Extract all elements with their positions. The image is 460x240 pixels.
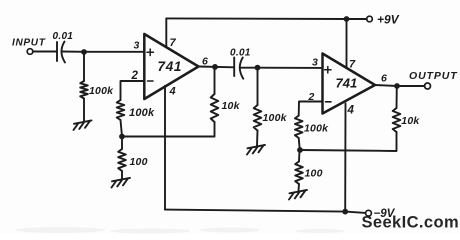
svg-text:SeekIC.com: SeekIC.com xyxy=(362,214,460,232)
op-amp U2 741 xyxy=(323,54,376,114)
wire R4 up to node B xyxy=(214,67,216,94)
ground G1 xyxy=(74,120,92,130)
svg-text:OUTPUT: OUTPUT xyxy=(409,70,458,82)
svg-text:10k: 10k xyxy=(401,115,420,127)
svg-text:10k: 10k xyxy=(222,100,241,112)
op-amp U1 741 xyxy=(144,34,198,99)
resistor R8 10k xyxy=(393,108,401,132)
wire U2 pin2 left and down xyxy=(299,102,323,116)
U2 pin4 wire to -9V rail xyxy=(344,104,346,212)
wire R8 up to node E xyxy=(396,86,398,108)
svg-text:+9V: +9V xyxy=(377,12,400,26)
wire U2 output pin6 to OUTPUT xyxy=(375,85,425,86)
svg-text:0.01: 0.01 xyxy=(230,48,251,59)
svg-text:741: 741 xyxy=(158,59,183,74)
svg-text:2: 2 xyxy=(131,70,139,82)
+9V rail junction dot xyxy=(344,16,350,22)
node B junction dot xyxy=(212,64,218,70)
svg-text:100: 100 xyxy=(305,168,323,180)
wire C2 to node D to U2 pin3 xyxy=(240,67,323,69)
node F junction dot xyxy=(297,147,303,153)
output terminal xyxy=(425,83,431,89)
-9V rail junction dot xyxy=(342,209,348,215)
wire node C down xyxy=(121,137,123,150)
node A junction dot xyxy=(81,49,87,55)
svg-text:100k: 100k xyxy=(129,107,155,119)
wire node F down xyxy=(298,150,301,161)
resistor R7 100 xyxy=(295,161,303,184)
wire R6 to node F xyxy=(299,138,300,150)
resistor R3 100 xyxy=(118,149,126,171)
U1 pin4 wire to -9V rail xyxy=(164,86,166,210)
resistor R6 100k xyxy=(295,116,303,138)
svg-text:6: 6 xyxy=(381,73,387,85)
-9V bottom rail wire xyxy=(165,210,366,213)
svg-text:4: 4 xyxy=(169,85,176,97)
feedback wire node C to R4 xyxy=(122,122,215,137)
wire R2 to node C xyxy=(121,120,123,137)
feedback wire node F to R8 xyxy=(300,132,397,151)
U2 minus sign xyxy=(326,101,332,103)
+9V top rail wire xyxy=(166,17,366,20)
node D junction dot xyxy=(255,65,261,71)
wire R1 to ground xyxy=(83,99,85,122)
capacitor C1 curved plate xyxy=(61,42,65,63)
node E junction dot xyxy=(394,83,400,89)
svg-text:3: 3 xyxy=(134,40,140,52)
U2 plus sign xyxy=(325,67,331,73)
input terminal xyxy=(27,49,33,55)
wire input to C1 xyxy=(33,51,57,53)
svg-text:2: 2 xyxy=(308,91,315,103)
U2 pin7 wire to +9V rail xyxy=(346,19,348,68)
ground G2 xyxy=(112,178,131,188)
svg-text:7: 7 xyxy=(170,37,177,49)
svg-text:7: 7 xyxy=(349,59,356,71)
svg-text:INPUT: INPUT xyxy=(12,38,46,49)
resistor R2 100k xyxy=(117,100,125,120)
wire node A down xyxy=(83,52,85,81)
svg-text:100k: 100k xyxy=(304,123,329,135)
svg-text:100k: 100k xyxy=(89,85,114,97)
wire C1 to node A xyxy=(62,51,144,53)
+9V terminal xyxy=(367,16,373,22)
-9V terminal xyxy=(366,210,372,216)
svg-text:741: 741 xyxy=(336,76,358,91)
ground G3 xyxy=(247,145,265,155)
capacitor C1 0.01 left plate xyxy=(56,42,58,61)
wire node D down xyxy=(257,68,259,105)
wire R3 to ground xyxy=(121,171,123,179)
resistor R5 100k xyxy=(254,105,262,131)
U1 plus sign xyxy=(147,49,154,56)
node C junction dot xyxy=(119,134,125,140)
svg-text:4: 4 xyxy=(347,104,355,116)
faint scan smudges along bottom edge xyxy=(15,227,345,234)
ground G4 xyxy=(289,190,307,200)
svg-text:0.01: 0.01 xyxy=(53,31,74,42)
capacitor C2 curved plate xyxy=(240,58,244,79)
svg-text:100: 100 xyxy=(130,156,148,168)
wire U1 pin2 left and down xyxy=(121,81,145,100)
wire R5 to ground xyxy=(256,131,259,146)
wire R7 to ground xyxy=(298,184,301,191)
svg-text:6: 6 xyxy=(202,55,208,67)
capacitor C2 0.01 left plate xyxy=(233,58,235,77)
wire U1 output pin6 to C2 xyxy=(199,66,235,69)
resistor R1 100k xyxy=(80,81,88,99)
svg-text:3: 3 xyxy=(312,57,318,69)
svg-text:100k: 100k xyxy=(263,112,288,124)
U1 pin7 wire to +9V rail xyxy=(165,18,167,47)
U1 minus sign xyxy=(148,80,154,82)
resistor R4 10k xyxy=(211,94,219,122)
